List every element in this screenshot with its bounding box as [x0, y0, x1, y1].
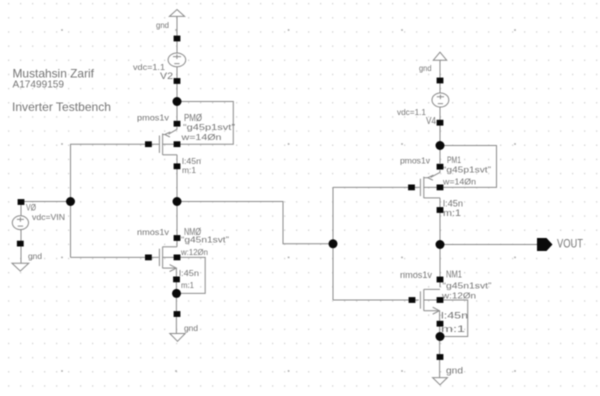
svg-text:V2: V2 — [160, 71, 173, 82]
svg-text:VØ: VØ — [26, 202, 36, 212]
svg-text:pmos1v: pmos1v — [400, 157, 430, 166]
svg-text:NM1: NM1 — [446, 269, 462, 281]
svg-text:VOUT: VOUT — [557, 239, 583, 251]
svg-text:“g45p1svt”: “g45p1svt” — [443, 166, 491, 175]
svg-text:l:45n: l:45n — [179, 269, 199, 278]
svg-text:w:12Øn: w:12Øn — [441, 291, 476, 301]
svg-text:w:12Øn: w:12Øn — [180, 248, 208, 257]
svg-text:w=14Øn: w=14Øn — [442, 178, 476, 187]
svg-text:PM1: PM1 — [447, 155, 461, 166]
svg-text:vdc=1.1: vdc=1.1 — [397, 108, 427, 117]
svg-text:nmos1v: nmos1v — [400, 270, 433, 280]
svg-text:“g45p1svt”: “g45p1svt” — [183, 123, 235, 132]
svg-text:pmos1v: pmos1v — [137, 113, 169, 122]
svg-text:l:45n: l:45n — [182, 157, 201, 166]
svg-text:vdc=VIN: vdc=VIN — [32, 213, 65, 222]
svg-text:“g45n1svt”: “g45n1svt” — [181, 236, 229, 245]
svg-text:gnd: gnd — [419, 64, 432, 73]
svg-text:gnd: gnd — [184, 323, 198, 333]
svg-text:m:1: m:1 — [443, 208, 461, 219]
svg-text:l:45n: l:45n — [441, 311, 468, 322]
svg-text:m:1: m:1 — [181, 281, 195, 290]
svg-text:“g45n1svt”: “g45n1svt” — [443, 281, 492, 291]
svg-text:m:1: m:1 — [441, 324, 465, 335]
svg-text:A17499159: A17499159 — [13, 79, 65, 91]
svg-text:V4: V4 — [426, 116, 436, 127]
svg-text:gnd: gnd — [446, 366, 463, 376]
svg-text:gnd: gnd — [28, 252, 42, 261]
svg-text:m:1: m:1 — [182, 166, 197, 175]
svg-text:nmos1v: nmos1v — [137, 228, 169, 237]
svg-text:Inverter Testbench: Inverter Testbench — [12, 100, 111, 114]
svg-text:w=14Øn: w=14Øn — [180, 133, 221, 142]
svg-text:gnd: gnd — [156, 21, 169, 30]
